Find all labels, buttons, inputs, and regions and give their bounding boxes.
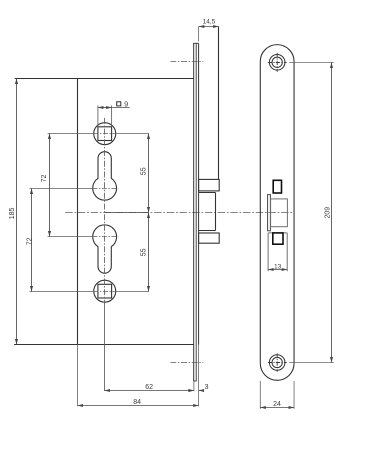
horizontal centerline bottom square — [30, 291, 149, 293]
screw axis centerline bottom (side view) — [170, 362, 203, 364]
main horizontal centerline — [65, 212, 292, 214]
extension lines bottom — [78, 345, 199, 407]
dimension 24 (plate width) — [260, 381, 294, 409]
screw axis centerline top (side view) — [170, 61, 203, 63]
faceplate edge-on (three vertical lines) — [193, 43, 198, 381]
svg-text:84: 84 — [133, 399, 141, 406]
side view bolt housing band — [199, 233, 220, 243]
horizontal centerline upper euro circle — [30, 188, 119, 190]
side view latch housing band — [199, 179, 220, 191]
svg-text:72: 72 — [26, 237, 33, 245]
top screw hole — [269, 55, 285, 71]
dimension 55 lower — [148, 213, 150, 292]
svg-text:209: 209 — [324, 207, 331, 219]
bottom screw hole — [269, 355, 285, 371]
svg-text:55: 55 — [141, 167, 148, 175]
svg-text:24: 24 — [273, 401, 281, 408]
solid extension segment at main centerline (55-chain junction) — [105, 212, 149, 214]
follower square top — [94, 123, 116, 145]
bolt head (bold) — [273, 233, 283, 244]
dimension 185 — [16, 79, 18, 345]
dimension 62 — [105, 390, 194, 392]
svg-text:185: 185 — [9, 208, 16, 220]
latch opening — [271, 199, 288, 227]
dimension 84 — [78, 405, 199, 407]
euro cylinder hole upper (stem up) — [93, 152, 117, 200]
dimension 72 lower (upper euro to bottom square) — [31, 189, 33, 292]
horizontal centerline top square (ext to dims 72/55) — [48, 133, 149, 135]
horizontal centerline lower euro circle — [48, 236, 119, 238]
svg-text:72: 72 — [41, 175, 48, 183]
side view case depth edge — [218, 27, 220, 180]
dimension 55 upper — [148, 134, 150, 213]
svg-text:9: 9 — [124, 100, 128, 109]
follower square bottom — [94, 280, 116, 302]
dimension 14,5 — [198, 27, 200, 42]
svg-text:62: 62 — [145, 384, 153, 391]
svg-text:55: 55 — [141, 248, 148, 256]
euro cylinder hole lower (stem down) — [93, 225, 117, 273]
dimension 9 (square) — [98, 106, 112, 127]
latch front strip — [268, 195, 271, 231]
lock case outline (main side elevation) — [14, 79, 194, 345]
dimension 209 — [289, 63, 334, 363]
svg-text:14,5: 14,5 — [203, 19, 216, 26]
dimension 13 (bolt opening width) — [268, 269, 287, 271]
svg-text:13: 13 — [274, 263, 282, 270]
faceplate front view outline — [260, 45, 294, 381]
svg-text:3: 3 — [205, 384, 209, 391]
dimension 3 (faceplate thickness) — [189, 390, 204, 392]
side view middle recess — [199, 193, 216, 231]
dimension 72 upper (square to lower euro) — [49, 134, 51, 237]
vertical centerline of holes — [104, 118, 106, 391]
small punched hole above latch (bold) — [273, 180, 281, 193]
bolt opening — [268, 233, 287, 271]
